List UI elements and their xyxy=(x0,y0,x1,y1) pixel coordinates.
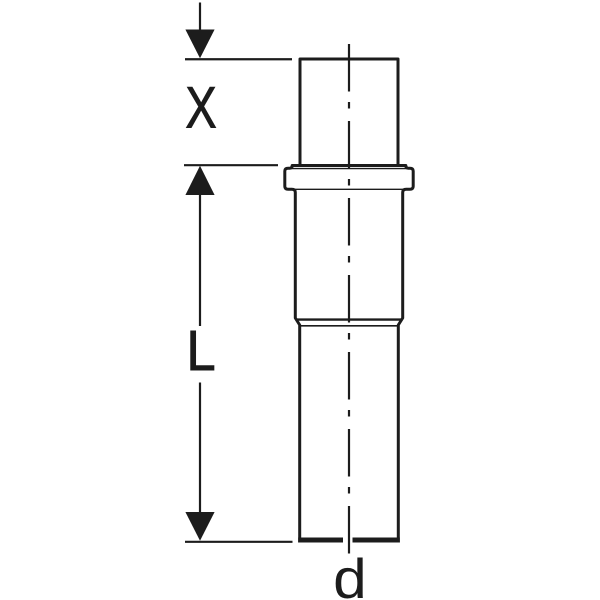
svg-text:d: d xyxy=(333,547,367,600)
svg-text:X: X xyxy=(185,76,216,141)
svg-text:L: L xyxy=(186,319,215,383)
